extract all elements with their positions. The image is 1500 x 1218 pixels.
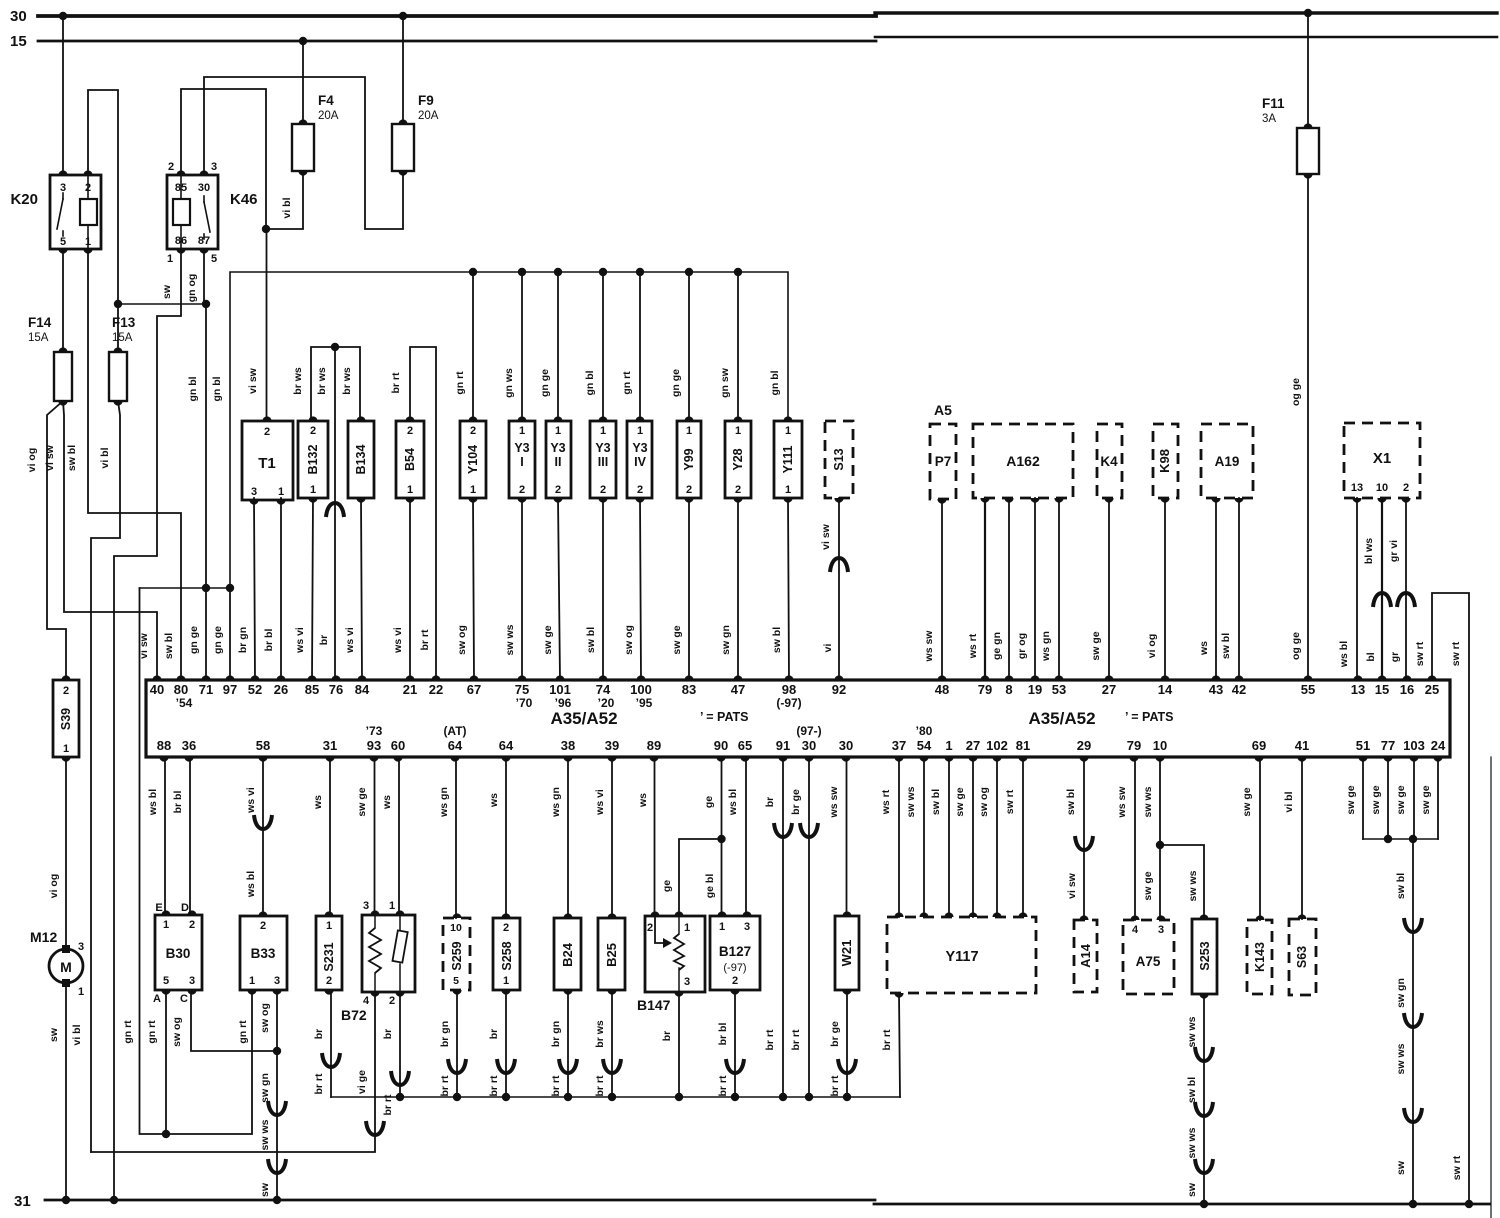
valve Y111 bbox=[774, 421, 802, 498]
svg-text:10: 10 bbox=[1153, 738, 1167, 753]
svg-text:vi sw: vi sw bbox=[44, 444, 56, 471]
svg-text:vi sw: vi sw bbox=[247, 367, 259, 394]
svg-text:og ge: og ge bbox=[1290, 632, 1302, 660]
wire X1-13 to ECU pin13 bbox=[1356, 498, 1358, 680]
svg-text:102: 102 bbox=[986, 738, 1008, 753]
svg-text:90: 90 bbox=[714, 738, 728, 753]
ECU top pin 8 bbox=[1004, 675, 1013, 680]
svg-text:ge: ge bbox=[703, 796, 715, 808]
svg-text:Y28: Y28 bbox=[731, 448, 745, 470]
svg-text:sw bl: sw bl bbox=[1065, 789, 1077, 815]
svg-text:29: 29 bbox=[1077, 738, 1091, 753]
wire ECU pin64 to S258-2 bbox=[505, 757, 507, 918]
wire K46 pin2 loop to F4 node bbox=[181, 89, 266, 229]
wire ECU pin65 to B127-3 bbox=[745, 757, 747, 916]
svg-text:65: 65 bbox=[738, 738, 752, 753]
svg-text:100: 100 bbox=[630, 682, 652, 697]
svg-text:91: 91 bbox=[776, 738, 790, 753]
svg-text:sw gn: sw gn bbox=[1395, 978, 1407, 1008]
svg-text:gr: gr bbox=[1389, 652, 1401, 663]
wire component pin to ECU pin x789 bbox=[788, 498, 789, 680]
svg-text:gn ge: gn ge bbox=[212, 626, 224, 654]
svg-text:2: 2 bbox=[647, 922, 653, 934]
ECU bottom pin 60 bbox=[393, 757, 402, 762]
svg-text:br rt: br rt bbox=[488, 1075, 500, 1097]
svg-text:2: 2 bbox=[735, 484, 741, 496]
svg-text:ge gn: ge gn bbox=[991, 632, 1003, 660]
ECU top pin 42 bbox=[1234, 675, 1243, 680]
svg-text:K98: K98 bbox=[1157, 449, 1172, 473]
relay K4 bbox=[1097, 424, 1122, 498]
connector X1 bbox=[1344, 423, 1420, 498]
svg-text:gn rt: gn rt bbox=[122, 1020, 134, 1044]
svg-text:ws: ws bbox=[381, 795, 393, 810]
svg-text:ws: ws bbox=[1198, 641, 1210, 656]
wire ECU pin25 ground loop sw rt bbox=[1432, 593, 1469, 1204]
svg-text:3: 3 bbox=[274, 975, 280, 987]
wire A19 to ECU pin43 bbox=[1215, 498, 1217, 680]
fuse F14 15A bbox=[54, 352, 72, 401]
ECU top pin 67 bbox=[469, 675, 478, 680]
wire B30-C to B33-3 node bbox=[191, 990, 277, 1051]
wire component pin to ECU pin x560 bbox=[558, 498, 560, 680]
relay K143 bbox=[1247, 920, 1272, 994]
svg-text:2: 2 bbox=[732, 975, 738, 987]
wire ECU pin64AT to S259-10 bbox=[455, 757, 457, 918]
svg-text:A162: A162 bbox=[1006, 453, 1040, 469]
svg-text:S231: S231 bbox=[322, 942, 336, 971]
svg-text:S259: S259 bbox=[450, 941, 464, 970]
junction rail272 x640 bbox=[636, 268, 644, 276]
svg-text:gn rt: gn rt bbox=[146, 1020, 158, 1044]
svg-text:1: 1 bbox=[519, 425, 525, 437]
svg-text:ws bl: ws bl bbox=[245, 871, 257, 898]
svg-text:Y3: Y3 bbox=[550, 441, 565, 455]
ECU bottom pin 89 bbox=[649, 757, 658, 762]
svg-text:37: 37 bbox=[892, 738, 906, 753]
wire component pin to ECU pin x474 bbox=[473, 498, 474, 680]
svg-text:A35/A52: A35/A52 bbox=[1028, 709, 1095, 728]
svg-text:sw ws: sw ws bbox=[1187, 870, 1199, 901]
ECU top pin 100 bbox=[636, 675, 645, 680]
wire rail272 to Y99 top bbox=[688, 272, 690, 421]
svg-text:bl: bl bbox=[1365, 652, 1377, 661]
wire ECU pin77 down bbox=[1387, 757, 1389, 839]
ECU top pin 84 bbox=[357, 675, 366, 680]
ECU top pin 43 bbox=[1211, 675, 1220, 680]
svg-text:F11: F11 bbox=[1262, 96, 1285, 111]
wire W21 to ground rail bbox=[846, 990, 848, 1097]
svg-text:B72: B72 bbox=[341, 1007, 367, 1023]
svg-text:55: 55 bbox=[1301, 682, 1315, 697]
switch S259 bbox=[443, 918, 470, 990]
svg-text:(-97): (-97) bbox=[776, 696, 801, 710]
node588 bbox=[140, 587, 231, 589]
svg-text:br rt: br rt bbox=[439, 1075, 451, 1097]
svg-text:br ws: br ws bbox=[594, 1020, 606, 1048]
svg-text:Y104: Y104 bbox=[466, 445, 480, 474]
svg-text:ws vi: ws vi bbox=[245, 787, 257, 814]
ECU top pin 19 bbox=[1030, 675, 1039, 680]
wire node87 horizontal bbox=[118, 303, 206, 305]
wire K20 pin5 to F14 bbox=[62, 249, 64, 352]
svg-text:sw bl: sw bl bbox=[66, 445, 78, 471]
svg-text:1: 1 bbox=[167, 253, 173, 265]
svg-text:30: 30 bbox=[198, 182, 210, 194]
wire ECU pin103 down bbox=[1413, 757, 1415, 839]
svg-text:B134: B134 bbox=[354, 445, 368, 475]
svg-text:P7: P7 bbox=[935, 454, 952, 469]
svg-text:’96: ’96 bbox=[555, 696, 572, 710]
svg-text:B30: B30 bbox=[166, 946, 191, 961]
wire B72-2 to ground rail bbox=[399, 992, 401, 1097]
svg-text:101: 101 bbox=[549, 682, 571, 697]
svg-text:S13: S13 bbox=[832, 448, 846, 470]
wire ECU pin39 to B25 bbox=[611, 757, 613, 918]
ECU bottom pin 69 bbox=[1254, 757, 1263, 762]
svg-text:5: 5 bbox=[453, 975, 459, 987]
rail272 left leg bbox=[230, 272, 473, 588]
svg-text:Y111: Y111 bbox=[781, 446, 795, 474]
fuse F4 20A bbox=[292, 124, 314, 171]
ECU top pin 97 bbox=[225, 675, 234, 680]
svg-text:sw: sw bbox=[259, 1182, 271, 1197]
node F4/K46-85/T1 bbox=[262, 225, 270, 233]
ECU bottom pin 41 bbox=[1297, 757, 1306, 762]
wire K20-pin1 vi-ge link to B72-4 bbox=[91, 992, 375, 1152]
valve Y104 bbox=[460, 421, 486, 498]
svg-text:2: 2 bbox=[686, 484, 692, 496]
wire bus30 to K20 pin3 bbox=[59, 12, 67, 20]
svg-text:sw rt: sw rt bbox=[1414, 641, 1426, 666]
wire ECU pin51 down bbox=[1362, 757, 1364, 839]
switch S231 bbox=[316, 916, 342, 990]
svg-text:3: 3 bbox=[1158, 924, 1164, 936]
svg-text:3A: 3A bbox=[1262, 113, 1276, 125]
svg-text:sw bl: sw bl bbox=[1220, 633, 1232, 659]
bridge B132/B134 tops bbox=[311, 347, 360, 421]
ECU bottom pin 54 bbox=[919, 757, 928, 762]
svg-text:1: 1 bbox=[249, 975, 255, 987]
wire ECU pin24 down bbox=[1437, 757, 1439, 839]
svg-text:gn rt: gn rt bbox=[454, 371, 466, 395]
svg-text:15A: 15A bbox=[28, 332, 49, 344]
svg-text:53: 53 bbox=[1052, 682, 1066, 697]
ECU bottom pin 93 bbox=[369, 757, 378, 762]
svg-text:1: 1 bbox=[785, 484, 791, 496]
svg-text:br: br bbox=[318, 635, 330, 646]
wire B25 to ground rail bbox=[611, 990, 613, 1097]
svg-text:F14: F14 bbox=[28, 315, 52, 330]
svg-text:sw ge: sw ge bbox=[1395, 785, 1407, 814]
svg-text:vi og: vi og bbox=[48, 874, 60, 899]
wire B24 to ground rail bbox=[567, 990, 569, 1097]
svg-text:br rt: br rt bbox=[419, 629, 431, 651]
svg-text:sw ws: sw ws bbox=[1186, 1016, 1198, 1047]
svg-text:gn sw: gn sw bbox=[719, 367, 731, 398]
svg-text:5: 5 bbox=[60, 236, 66, 248]
svg-text:8: 8 bbox=[1005, 682, 1012, 697]
svg-text:gn bl: gn bl bbox=[769, 370, 781, 395]
svg-text:1: 1 bbox=[63, 743, 69, 755]
svg-text:br rt: br rt bbox=[382, 1094, 394, 1116]
wire node588 to ECU pin97 bbox=[229, 588, 231, 680]
svg-text:1: 1 bbox=[719, 921, 725, 933]
wire ECU pin27 to Y117 bbox=[972, 757, 974, 917]
wire component pin to ECU pin x312 bbox=[312, 498, 313, 680]
svg-text:sw bl: sw bl bbox=[1186, 1077, 1198, 1103]
wire node to F13 top bbox=[117, 304, 119, 352]
svg-text:58: 58 bbox=[256, 738, 270, 753]
svg-text:27: 27 bbox=[1102, 682, 1116, 697]
svg-text:1: 1 bbox=[686, 425, 692, 437]
svg-text:sw ge: sw ge bbox=[1420, 785, 1432, 814]
svg-text:1: 1 bbox=[310, 484, 316, 496]
switch S258 bbox=[493, 918, 520, 990]
svg-text:ws vi: ws vi bbox=[392, 627, 404, 654]
wire component pin to ECU pin x689 bbox=[688, 498, 690, 680]
svg-text:81: 81 bbox=[1016, 738, 1030, 753]
svg-text:gn bl: gn bl bbox=[211, 376, 223, 401]
switch S39 bbox=[53, 680, 79, 757]
svg-text:31: 31 bbox=[323, 738, 337, 753]
wire component pin to ECU pin x410 bbox=[409, 498, 411, 680]
wire A162 to ECU pin53 bbox=[1058, 498, 1060, 680]
svg-text:sw ws: sw ws bbox=[259, 1119, 271, 1150]
injector Y3 II bbox=[546, 421, 571, 498]
svg-text:vi bl: vi bl bbox=[99, 447, 111, 468]
svg-text:sw og: sw og bbox=[259, 1003, 271, 1033]
svg-text:sw bl: sw bl bbox=[930, 789, 942, 815]
svg-text:2: 2 bbox=[264, 426, 270, 438]
wire S259-5 to ground rail bbox=[456, 990, 458, 1097]
svg-text:15: 15 bbox=[10, 33, 27, 50]
ECU bottom pin 36 bbox=[184, 757, 193, 762]
wire S39 to M12 bbox=[65, 757, 67, 948]
svg-text:27: 27 bbox=[966, 738, 980, 753]
wire K20 pin1 to ECU pin80 bbox=[88, 249, 181, 680]
resistor W21 bbox=[835, 916, 859, 990]
svg-text:84: 84 bbox=[355, 682, 370, 697]
svg-text:sw ge: sw ge bbox=[542, 625, 554, 654]
svg-text:4: 4 bbox=[363, 995, 370, 1007]
svg-text:43: 43 bbox=[1209, 682, 1223, 697]
wire B147-3 to ground rail bbox=[678, 992, 680, 1097]
svg-text:64: 64 bbox=[448, 738, 463, 753]
svg-text:71: 71 bbox=[199, 682, 213, 697]
wire component pin to ECU pin x281 bbox=[280, 498, 282, 680]
svg-text:sw: sw bbox=[1186, 1182, 1198, 1197]
wire B33-3 ground chain bbox=[276, 990, 278, 1200]
ECU top pin 76 bbox=[331, 675, 340, 680]
rail 272 to Y-components bbox=[473, 272, 788, 421]
wire X1-2 to ECU pin16 bbox=[1405, 498, 1407, 680]
svg-text:M12: M12 bbox=[30, 929, 57, 945]
valve Y99 bbox=[677, 421, 701, 498]
bridge B54 top bbox=[410, 347, 436, 680]
svg-text:Y3: Y3 bbox=[595, 441, 610, 455]
svg-text:1: 1 bbox=[389, 900, 395, 912]
wire ECU pin89 to B147-2 bbox=[654, 757, 656, 916]
svg-text:2: 2 bbox=[600, 484, 606, 496]
ECU bottom pin 90 bbox=[716, 757, 725, 762]
wire ECU pin102 to Y117 bbox=[996, 757, 998, 917]
svg-text:31: 31 bbox=[14, 1193, 31, 1210]
svg-text:64: 64 bbox=[499, 738, 514, 753]
svg-text:B127: B127 bbox=[719, 944, 751, 959]
ECU bottom pin 39 bbox=[607, 757, 616, 762]
wire ECU pin88 to B30-E bbox=[164, 757, 166, 915]
control unit A19 bbox=[1201, 424, 1253, 498]
svg-text:74: 74 bbox=[596, 682, 611, 697]
svg-text:sw bl: sw bl bbox=[1395, 873, 1407, 899]
control unit A162 bbox=[973, 424, 1073, 498]
svg-text:S63: S63 bbox=[1295, 946, 1309, 968]
svg-text:gn ge: gn ge bbox=[539, 369, 551, 397]
wire F14 out vi og to S39 bbox=[47, 401, 66, 680]
svg-text:K143: K143 bbox=[1253, 942, 1267, 972]
wire ECU pin60 to B72-1 bbox=[398, 757, 400, 915]
svg-text:vi og: vi og bbox=[1146, 634, 1158, 659]
wire S231-2 to ground rail bbox=[330, 990, 332, 1097]
svg-text:B54: B54 bbox=[403, 448, 417, 471]
svg-text:24: 24 bbox=[1431, 738, 1446, 753]
ECU bottom pin 65 bbox=[740, 757, 749, 762]
svg-text:98: 98 bbox=[782, 682, 796, 697]
ECU top pin 21 bbox=[405, 675, 414, 680]
ECU bottom pin 24 bbox=[1433, 757, 1442, 762]
svg-text:vi bl: vi bl bbox=[1283, 791, 1295, 812]
svg-text:1: 1 bbox=[684, 922, 690, 934]
svg-text:92: 92 bbox=[832, 682, 846, 697]
svg-text:10: 10 bbox=[450, 922, 462, 934]
svg-text:1: 1 bbox=[785, 425, 791, 437]
wire B127-2 to ground rail bbox=[734, 990, 736, 1097]
svg-text:gr og: gr og bbox=[1016, 633, 1028, 659]
wire M12 to bus31 bbox=[65, 987, 67, 1200]
ECU bottom pin 58 bbox=[258, 757, 267, 762]
ECU top pin 13 bbox=[1353, 675, 1362, 680]
ECU bottom pin 38 bbox=[563, 757, 572, 762]
wire component pin to ECU pin x255 bbox=[254, 498, 255, 680]
ECU bottom pin 37 bbox=[894, 757, 903, 762]
svg-text:br rt: br rt bbox=[881, 1029, 893, 1051]
wire ECU pin54 to Y117 bbox=[923, 757, 925, 917]
svg-text:21: 21 bbox=[403, 682, 417, 697]
svg-text:Y3: Y3 bbox=[632, 441, 647, 455]
svg-text:br: br bbox=[382, 1029, 394, 1040]
svg-text:1: 1 bbox=[735, 425, 741, 437]
ECU top pin 25 bbox=[1427, 675, 1436, 680]
svg-text:B33: B33 bbox=[251, 946, 276, 961]
svg-text:5: 5 bbox=[211, 253, 217, 265]
svg-text:sw: sw bbox=[48, 1027, 60, 1042]
wire component pin to ECU pin x362 bbox=[361, 498, 362, 680]
svg-text:1: 1 bbox=[278, 486, 284, 498]
svg-text:br bl: br bl bbox=[263, 629, 275, 652]
wire K46 pin3 to F9 bottom bbox=[204, 77, 403, 229]
ECU bottom pin 64 bbox=[450, 757, 459, 762]
svg-text:gn og: gn og bbox=[186, 274, 198, 303]
switch S63 bbox=[1289, 919, 1316, 995]
svg-text:15: 15 bbox=[1375, 682, 1389, 697]
svg-text:ws vi: ws vi bbox=[594, 789, 606, 816]
ECU bottom pin 27 bbox=[968, 757, 977, 762]
junction rail272 x603 bbox=[599, 268, 607, 276]
ECU bottom pin 31 bbox=[325, 757, 334, 762]
svg-text:T1: T1 bbox=[258, 455, 276, 472]
wire K46 pin5 to node bbox=[203, 249, 205, 304]
svg-text:IV: IV bbox=[634, 455, 646, 469]
svg-text:1: 1 bbox=[555, 425, 561, 437]
wire ECU pin30 to W21 bbox=[846, 757, 848, 916]
svg-text:A19: A19 bbox=[1215, 454, 1240, 469]
svg-text:K46: K46 bbox=[230, 191, 258, 208]
svg-text:4: 4 bbox=[1132, 924, 1139, 936]
wire ECU pin58 to B33-2 bbox=[262, 757, 264, 916]
svg-text:br rt: br rt bbox=[829, 1075, 841, 1097]
sensor B132 bbox=[298, 421, 328, 498]
svg-text:A5: A5 bbox=[934, 402, 952, 418]
svg-text:sw ge: sw ge bbox=[1241, 787, 1253, 816]
junction rail272 x473 bbox=[469, 268, 477, 276]
svg-text:10: 10 bbox=[1376, 482, 1388, 494]
wire A162 to ECU pin19 bbox=[1034, 498, 1036, 680]
svg-text:br gn: br gn bbox=[550, 1021, 562, 1047]
wire cluster bridge bbox=[1363, 838, 1438, 840]
sensor B24 bbox=[554, 918, 581, 990]
wire K98 to ECU pin14 bbox=[1164, 498, 1166, 680]
svg-text:br bl: br bl bbox=[717, 1023, 729, 1046]
relay K20 bbox=[50, 175, 101, 249]
svg-text:13: 13 bbox=[1351, 682, 1365, 697]
svg-text:ge: ge bbox=[661, 880, 673, 892]
svg-text:vi sw: vi sw bbox=[1066, 872, 1078, 899]
relay K46 bbox=[167, 175, 218, 249]
wire X1-10 to ECU pin15 bbox=[1381, 498, 1383, 680]
sensor B25 bbox=[598, 918, 625, 990]
ECU top pin 74 bbox=[598, 675, 607, 680]
svg-text:80: 80 bbox=[174, 682, 188, 697]
wire K4 to ECU pin27 bbox=[1108, 498, 1110, 680]
wire K46 pin1 jog down bbox=[114, 249, 181, 1200]
svg-text:W21: W21 bbox=[839, 940, 854, 967]
ECU top pin 53 bbox=[1054, 675, 1063, 680]
svg-text:A: A bbox=[153, 993, 161, 1005]
svg-text:sw gn: sw gn bbox=[720, 625, 732, 655]
ECU bottom pin 30 bbox=[841, 757, 850, 762]
wire bus30 to F11 bbox=[1304, 9, 1312, 17]
svg-text:B147: B147 bbox=[637, 997, 671, 1013]
ECU top pin 48 bbox=[937, 675, 946, 680]
svg-text:2: 2 bbox=[168, 161, 174, 173]
svg-text:1: 1 bbox=[163, 919, 169, 931]
svg-text:I: I bbox=[520, 455, 523, 469]
wire cluster ground chain bbox=[1412, 839, 1414, 1204]
svg-text:103: 103 bbox=[1403, 738, 1425, 753]
svg-text:ws: ws bbox=[312, 795, 324, 810]
svg-text:51: 51 bbox=[1356, 738, 1370, 753]
svg-text:sw ge: sw ge bbox=[1090, 631, 1102, 660]
svg-text:25: 25 bbox=[1425, 682, 1439, 697]
sensor B33 bbox=[240, 916, 287, 990]
svg-text:’80: ’80 bbox=[916, 724, 933, 738]
svg-text:3: 3 bbox=[189, 975, 195, 987]
svg-text:vi ge: vi ge bbox=[356, 1070, 368, 1094]
ECU top pin 14 bbox=[1160, 675, 1169, 680]
fuse F13 15A bbox=[109, 352, 127, 401]
svg-text:41: 41 bbox=[1295, 738, 1309, 753]
